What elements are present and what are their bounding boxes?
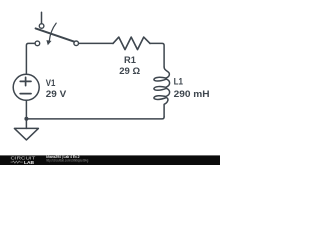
svg-text:http://circuitlab.com/c9tk6qsu: http://circuitlab.com/c9tk6qsud9kg [46,159,88,163]
switch actuation arrow [49,23,56,41]
footer bar [0,155,220,165]
wire: R1 to top-right corner down to L1 [150,43,164,67]
svg-text:L1: L1 [174,76,183,86]
switch left throw terminal [35,41,40,46]
wire: L1 bottom to bottom rail [26,117,164,119]
V1 minus sign [20,93,31,95]
switch top throw lead [41,12,43,23]
switch common terminal [74,41,79,46]
wire: switch common to R1 [79,42,113,44]
footer text line 1 [46,155,79,159]
ground symbol [14,128,38,140]
svg-text:29 Ω: 29 Ω [119,66,140,76]
svg-text:CIRCUIT: CIRCUIT [11,155,36,160]
switch top throw terminal [39,24,44,29]
switch blade [36,28,75,41]
ground stem [25,119,27,129]
svg-text:R1: R1 [124,55,136,65]
voltage source V1 circle [13,74,39,100]
footer logo resistor squiggle [11,161,23,163]
wire: V1 bottom to junction [25,100,27,119]
junction node [24,117,28,121]
V1 plus sign [20,77,31,85]
svg-text:LAB: LAB [24,160,35,165]
footer text line 2 [46,159,88,163]
footer logo LAB [24,160,35,166]
inductor L1 [154,67,170,117]
resistor R1 [113,37,150,50]
svg-text:V1: V1 [46,78,56,88]
svg-text:29 V: 29 V [46,89,67,99]
wire: left rail from V1 top up and right to switch [26,43,35,74]
svg-text:290 mH: 290 mH [174,89,210,99]
footer logo CIRCUIT [11,155,36,160]
